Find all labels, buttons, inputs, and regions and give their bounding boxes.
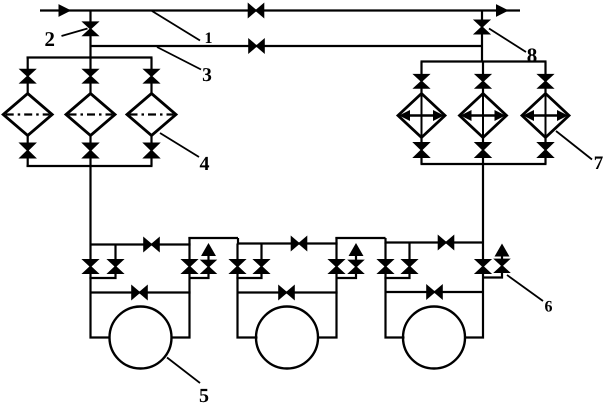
- wire: left branch 2 lower stub: [89, 134, 91, 166]
- wire: pump2 bypass line: [238, 291, 338, 293]
- exchanger E3 double-headed arrow: [523, 110, 568, 121]
- leader line for label 8: [489, 29, 526, 53]
- wire: right main down to pump 3: [464, 164, 483, 338]
- wire: pump3 suction header: [386, 241, 484, 243]
- wire: right group top manifold: [421, 60, 547, 62]
- wire: right group bottom manifold: [421, 163, 547, 165]
- pump 5c (circle): [403, 307, 465, 369]
- valve below filter F2: [83, 143, 98, 158]
- leader line for label 5: [167, 358, 200, 384]
- leader line for label 6: [507, 275, 543, 301]
- wire: right branch 2 lower stub: [482, 136, 484, 164]
- valve above exchanger E3: [538, 75, 553, 89]
- filter F2 (diamond): [66, 94, 115, 136]
- wire: pump2 suction branch B: [236, 244, 261, 279]
- wire: pump1 discharge header: [188, 237, 238, 239]
- wire: top supply main line 1: [40, 9, 520, 11]
- flow arrow into main 1 (left): [59, 5, 70, 16]
- wire: left branch 2 upper stub: [89, 58, 91, 96]
- filter F1 (diamond): [3, 94, 52, 136]
- valve on pump1 bypass: [132, 286, 147, 299]
- check valve 6: [495, 259, 509, 272]
- valve on pump2 bypass: [279, 286, 294, 299]
- label 2: [45, 32, 54, 46]
- label 1: [206, 32, 212, 43]
- wire: pump2 discharge riser: [317, 237, 337, 338]
- wire: left group top manifold: [27, 56, 153, 58]
- wire: right branch 2 upper stub: [482, 62, 484, 96]
- label 6: [545, 301, 552, 312]
- valve on pump3 suction header: [438, 236, 453, 249]
- check valve pump2 flow arrow: [349, 244, 362, 256]
- valve below filter F1: [20, 143, 35, 158]
- valve pump3 suction A (x=385.5): [378, 260, 393, 274]
- leader line for label 7: [556, 131, 592, 160]
- check valve pump2: [349, 260, 363, 273]
- filter F2 element dash-dot line: [69, 113, 113, 115]
- wire: right branch 3 lower stub: [544, 136, 546, 164]
- wire: drop from pump1 header to pump2 suction: [237, 238, 239, 245]
- valve above exchanger E2: [476, 75, 491, 89]
- wire: pump1 suction branch B: [89, 245, 115, 279]
- valve pump1 suction A (x=90.5): [83, 260, 98, 274]
- wire: left branch 3 lower stub: [150, 134, 152, 166]
- label 4: [200, 157, 209, 170]
- wire: vertical riser V1 from main 1 (x=90.5): [89, 11, 91, 58]
- valve on pump1 suction header: [144, 238, 159, 251]
- wire: vertical riser V2 from main 1 (x=482): [481, 11, 483, 62]
- wire: left branch 1 lower stub: [27, 134, 29, 166]
- label 8: [527, 48, 536, 62]
- wire: pump1 bypass line: [91, 291, 191, 293]
- wire: pump2 suction header: [238, 242, 338, 244]
- exchanger E2 (diamond): [460, 94, 507, 138]
- wire: pump3 bypass line: [386, 291, 484, 293]
- valve below exchanger E2: [476, 143, 491, 158]
- exchanger E2 internal vertical pipe: [482, 94, 484, 138]
- pump 5b (circle): [256, 307, 318, 369]
- wire: drop from pump2 header to pump3 suction: [384, 238, 386, 244]
- wire: pump2 check-valve branch elbow: [337, 254, 357, 278]
- label 7: [595, 157, 603, 169]
- valve below filter F3: [144, 143, 159, 158]
- wire: left branch 3 upper stub: [150, 58, 152, 96]
- leader line for label 2: [62, 29, 88, 37]
- valve on main 1: [248, 4, 263, 17]
- valve on main 3: [249, 40, 264, 53]
- valve above filter F1: [20, 69, 35, 83]
- pump 5a (circle): [110, 307, 172, 369]
- filter F3 element dash-dot line: [130, 113, 174, 115]
- label 5: [200, 389, 208, 402]
- check valve pump1: [202, 260, 216, 273]
- leader line for label 4: [160, 133, 199, 157]
- check valve 6 flow arrow: [495, 245, 508, 257]
- flow arrow out of main 1 (right): [497, 5, 508, 16]
- wire: right branch 1 upper stub: [420, 62, 422, 96]
- leader line for label 3: [157, 47, 201, 70]
- exchanger E3 internal vertical pipe: [545, 94, 547, 138]
- filter F3 (diamond): [127, 94, 176, 136]
- valve on pump3 discharge riser (item 6 group): [476, 260, 491, 274]
- exchanger E1 (diamond): [398, 94, 445, 138]
- valve pump2 suction A (x=237.5): [230, 260, 245, 274]
- wire: pump1 suction header: [91, 243, 191, 245]
- wire: pump3 suction branch B: [384, 243, 409, 279]
- valve above exchanger E1: [414, 75, 429, 89]
- valve on pump2 discharge riser: [329, 260, 344, 274]
- leader line for label 1: [152, 11, 200, 41]
- valve pump2 suction B (x=261.5): [254, 260, 269, 274]
- valve on pump2 suction header: [291, 237, 306, 250]
- valve 8 on riser V2: [475, 20, 490, 34]
- exchanger E1 internal vertical pipe: [421, 94, 423, 138]
- valve above filter F3: [144, 69, 159, 83]
- wire: pump2 suction branch A: [238, 244, 258, 338]
- exchanger E2 double-headed arrow: [461, 110, 506, 121]
- wire: left branch 1 upper stub: [27, 58, 29, 96]
- valve below exchanger E1: [414, 143, 429, 158]
- wire: second main line 3: [91, 45, 483, 47]
- wire: right branch 1 lower stub: [420, 136, 422, 164]
- valve below exchanger E3: [538, 143, 553, 158]
- valve on pump1 discharge riser: [182, 260, 197, 274]
- wire: pump2 discharge header: [335, 237, 385, 239]
- valve pump1 suction B (x=115.5): [108, 260, 123, 274]
- wire: pump3 check-valve branch elbow: [483, 254, 502, 278]
- valve on pump3 bypass: [427, 286, 442, 299]
- wire: left suction main down to pumps: [91, 166, 111, 338]
- check valve pump1 flow arrow: [202, 244, 215, 256]
- exchanger E3 (diamond): [522, 94, 569, 138]
- wire: pump1 check-valve branch elbow: [190, 254, 209, 278]
- valve 2 on riser V1: [83, 22, 98, 36]
- label 3: [203, 68, 211, 81]
- wire: right branch 3 upper stub: [544, 62, 546, 96]
- valve above filter F2: [83, 69, 98, 83]
- valve pump3 suction B (x=409.5): [402, 260, 417, 274]
- wire: pump3 suction branch A: [386, 243, 405, 338]
- wire: left group bottom manifold: [27, 165, 153, 167]
- wire: pump1 discharge riser: [171, 237, 190, 338]
- exchanger E1 double-headed arrow: [399, 110, 444, 121]
- filter F1 element dash-dot line: [6, 113, 50, 115]
